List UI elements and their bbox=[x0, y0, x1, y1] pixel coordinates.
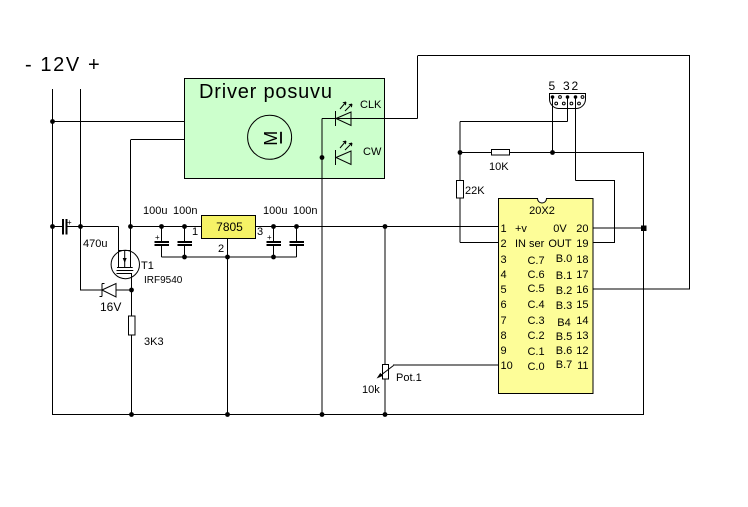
svg-text:100u: 100u bbox=[263, 205, 287, 217]
svg-text:C.2: C.2 bbox=[527, 330, 544, 342]
svg-text:C.6: C.6 bbox=[527, 269, 544, 281]
svg-text:B4: B4 bbox=[557, 317, 570, 329]
svg-text:14: 14 bbox=[576, 315, 588, 327]
svg-text:B.6: B.6 bbox=[556, 345, 573, 357]
svg-text:16V: 16V bbox=[100, 300, 121, 314]
svg-text:18: 18 bbox=[576, 254, 588, 266]
svg-text:T1: T1 bbox=[141, 260, 154, 272]
svg-text:Driver posuvu: Driver posuvu bbox=[199, 81, 333, 103]
svg-text:+: + bbox=[155, 233, 160, 242]
svg-text:OUT: OUT bbox=[548, 238, 572, 250]
svg-text:+v: +v bbox=[515, 223, 527, 235]
svg-text:100n: 100n bbox=[293, 205, 317, 217]
svg-text:3K3: 3K3 bbox=[144, 336, 164, 348]
svg-text:B.7: B.7 bbox=[556, 359, 573, 371]
svg-text:7: 7 bbox=[501, 315, 507, 327]
svg-text:0V: 0V bbox=[553, 223, 567, 235]
svg-text:12: 12 bbox=[576, 345, 588, 357]
svg-text:17: 17 bbox=[576, 269, 588, 281]
svg-text:5: 5 bbox=[549, 79, 556, 93]
svg-text:C.7: C.7 bbox=[527, 255, 544, 267]
svg-text:7805: 7805 bbox=[216, 220, 243, 234]
svg-text:11: 11 bbox=[577, 360, 588, 372]
svg-text:- 12V +: - 12V + bbox=[25, 54, 101, 76]
svg-text:CW: CW bbox=[363, 146, 382, 158]
svg-text:C.3: C.3 bbox=[527, 315, 544, 327]
svg-text:IN ser: IN ser bbox=[515, 238, 545, 250]
svg-text:10k: 10k bbox=[362, 384, 380, 396]
svg-text:15: 15 bbox=[576, 299, 588, 311]
svg-text:CLK: CLK bbox=[360, 99, 382, 111]
svg-text:9: 9 bbox=[501, 345, 507, 357]
svg-text:470u: 470u bbox=[83, 238, 107, 250]
svg-text:100n: 100n bbox=[173, 205, 197, 217]
svg-text:13: 13 bbox=[576, 330, 588, 342]
svg-text:19: 19 bbox=[576, 238, 588, 250]
svg-text:C.0: C.0 bbox=[527, 361, 544, 373]
svg-text:22K: 22K bbox=[465, 185, 485, 197]
svg-text:C.5: C.5 bbox=[527, 283, 544, 295]
svg-text:2: 2 bbox=[572, 79, 579, 93]
svg-text:6: 6 bbox=[501, 299, 507, 311]
svg-text:B.0: B.0 bbox=[556, 253, 573, 265]
svg-text:1: 1 bbox=[192, 226, 198, 238]
svg-text:16: 16 bbox=[576, 284, 588, 296]
svg-text:B.2: B.2 bbox=[556, 285, 573, 297]
svg-text:8: 8 bbox=[501, 330, 507, 342]
svg-text:4: 4 bbox=[501, 269, 507, 281]
svg-text:Pot.1: Pot.1 bbox=[396, 372, 422, 384]
svg-text:10: 10 bbox=[501, 360, 513, 372]
svg-text:5: 5 bbox=[501, 284, 507, 296]
svg-text:C.4: C.4 bbox=[527, 299, 544, 311]
svg-text:20X2: 20X2 bbox=[529, 205, 555, 217]
svg-text:B.1: B.1 bbox=[556, 270, 573, 282]
svg-text:+: + bbox=[267, 233, 272, 242]
svg-text:+: + bbox=[67, 218, 72, 227]
svg-text:1: 1 bbox=[501, 223, 507, 235]
svg-text:10K: 10K bbox=[489, 161, 509, 173]
svg-text:100u: 100u bbox=[143, 205, 167, 217]
svg-text:20: 20 bbox=[576, 223, 588, 235]
svg-text:B.5: B.5 bbox=[556, 331, 573, 343]
svg-text:IRF9540: IRF9540 bbox=[144, 275, 183, 286]
svg-text:3: 3 bbox=[563, 79, 570, 93]
svg-text:2: 2 bbox=[501, 238, 507, 250]
svg-text:2: 2 bbox=[218, 243, 224, 255]
svg-text:3: 3 bbox=[501, 254, 507, 266]
svg-text:B.3: B.3 bbox=[556, 300, 573, 312]
svg-text:3: 3 bbox=[257, 226, 263, 238]
svg-text:C.1: C.1 bbox=[527, 346, 544, 358]
svg-text:M: M bbox=[261, 131, 281, 146]
